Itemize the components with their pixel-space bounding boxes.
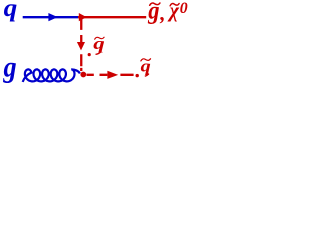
tail swash of bottom q-tilde xyxy=(145,74,149,77)
wire: squark propagator dashed (red, vertical) xyxy=(80,18,82,71)
svg-text:,: , xyxy=(159,1,165,25)
tail swash of middle q-tilde xyxy=(96,52,102,55)
tilde over bottom q xyxy=(141,59,151,61)
arrow on gluino line xyxy=(79,13,87,21)
wire: incoming quark line (blue) xyxy=(23,16,78,18)
tilde over chi xyxy=(170,3,179,5)
svg-text:g: g xyxy=(3,51,17,84)
wire: outgoing squark dashed (red, horizontal) xyxy=(87,74,134,76)
vertex dot (gluon-squark vertex) xyxy=(80,72,86,78)
arrow right on outgoing squark xyxy=(107,71,118,79)
tilde over middle q xyxy=(95,37,104,39)
wire: outgoing gluino/neutralino line (red) xyxy=(78,16,146,18)
gluon coil (blue) xyxy=(23,69,80,82)
tilde over g xyxy=(150,3,160,5)
arrow on quark line xyxy=(48,13,57,21)
svg-text:0: 0 xyxy=(180,0,188,17)
svg-text:q: q xyxy=(4,0,18,22)
arrow down on squark propagator xyxy=(77,42,85,50)
